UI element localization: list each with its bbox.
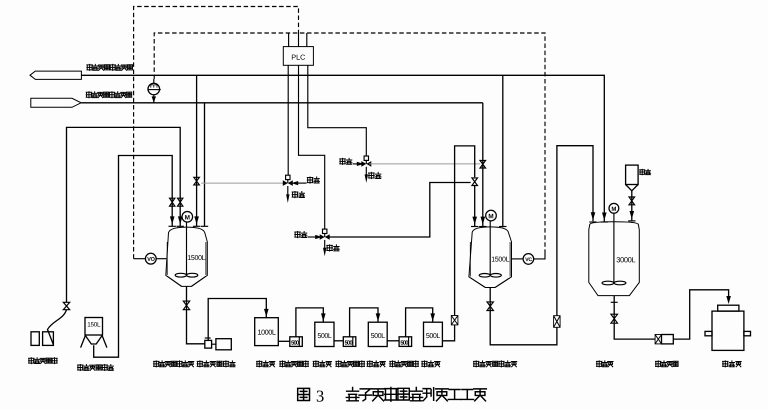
sand mill 3 <box>399 337 412 347</box>
label 放空 cross2 <box>369 172 381 178</box>
wire PLC top stubs <box>288 33 290 47</box>
inlet valves tank1 <box>170 198 175 206</box>
label 放空 cross3 <box>327 245 339 251</box>
grinding kettle 500L #3 <box>368 322 387 346</box>
solenoid cross valve 2 (tank2 DI) <box>364 156 368 160</box>
label 气源 cross3 <box>295 232 307 238</box>
instrument VO weigher tank1 <box>134 258 146 260</box>
label 分散乳化搅拌釜 tank2 <box>473 361 516 367</box>
wire hopper feed loop <box>94 156 173 358</box>
label 研磨釜 3 <box>367 361 385 367</box>
wire mill2 to kettle3 <box>350 308 378 337</box>
grinding kettle 500L #2 <box>315 322 334 346</box>
wire cross3 to tank2 feed valve <box>329 183 470 238</box>
motor M tank3 <box>609 203 619 213</box>
label 卧式砂磨机 1 <box>280 361 309 367</box>
grinding kettle 500L #4 <box>424 322 443 346</box>
label 卧式砂磨机 3 <box>390 361 419 367</box>
label 过滤小车 <box>655 361 678 367</box>
label 灌装机 <box>723 361 742 367</box>
sand mill 2 <box>343 337 356 347</box>
label 气源 cross2 <box>340 158 352 164</box>
solenoid cross valve 3 (tank2 feed) <box>323 229 327 233</box>
pipeline emulsifier <box>205 340 212 348</box>
label 原药包装袋 <box>29 358 58 364</box>
wire PLC to solenoid cross2 <box>308 65 367 156</box>
label 研磨釜 (1000L) <box>257 361 275 367</box>
label 助剂 <box>640 169 651 174</box>
filling machine <box>718 305 739 311</box>
vessel 1500L dispersing kettle <box>166 227 208 286</box>
PLC controller box U-PLC <box>283 47 313 66</box>
wire kettle4 up to tank2 (pump riser) <box>442 325 454 341</box>
wire dashed signal loop 1 (VO to PLC) <box>134 7 299 259</box>
raw material bag squares <box>31 332 39 346</box>
wire bag feed loop <box>67 127 181 302</box>
label 静置釜 <box>596 361 613 367</box>
wire tank3 outlet <box>614 296 655 340</box>
agitator shaft + impeller tank1 <box>186 222 188 275</box>
wire VCT corner solid <box>534 250 545 259</box>
label 去离子水来自储罐 <box>86 92 131 98</box>
label 液料加入料罐 <box>78 365 114 371</box>
wire 1000L to mill1 <box>278 340 290 342</box>
vessel 1500L dispersing kettle 2 <box>469 227 512 288</box>
wire vacuum header <box>81 75 604 222</box>
sand mill 1 <box>290 337 303 347</box>
motor M tank2 <box>486 210 497 221</box>
wire mill1 to kettle2 <box>296 308 323 337</box>
label 研磨釜 2 <box>313 361 331 367</box>
additive hopper 助剂 <box>626 165 639 184</box>
wire dashed signal line 2 (PT / VCT to PLC) <box>154 33 545 251</box>
150L feed hopper <box>85 318 103 336</box>
DI branch into tank1 <box>204 103 206 227</box>
motor M tank1 <box>182 212 193 223</box>
wire filter to filling machine <box>673 290 728 339</box>
vacuum inlet tank3 <box>602 213 607 221</box>
label 真空接自真空泵房 <box>87 64 133 70</box>
feed valve tank2 (from mills) <box>472 178 478 186</box>
label 气源 cross1 <box>307 177 319 183</box>
solenoid cross valve 1 (tank1 vacuum) <box>201 182 283 184</box>
label 研磨釜 4 <box>422 361 440 367</box>
wire DI water header <box>81 102 483 104</box>
wire tank2 outlet to pump riser <box>490 288 557 345</box>
pump X-box 2 <box>554 316 561 328</box>
pump X-box 1 <box>451 316 458 325</box>
filter cart <box>655 335 661 344</box>
wire PLC to solenoid cross1 <box>287 65 289 175</box>
vacuum inlet tank2 <box>502 75 504 227</box>
instrument VCT tank2 <box>512 258 524 260</box>
wire emulsifier to 1000L kettle <box>208 299 266 341</box>
hose to bag <box>48 310 67 345</box>
label 分散乳化搅拌釜 tank1 <box>154 361 194 367</box>
wire kettle3 to mill3 <box>387 340 399 342</box>
valve on bag riser <box>63 302 69 309</box>
DI water inlet tank2 <box>482 103 484 227</box>
wire kettle2 to mill2 <box>334 340 343 342</box>
label 放空 cross1 <box>292 192 304 198</box>
grinding kettle 1000L <box>255 318 279 346</box>
wire PLC to solenoid cross3 <box>299 65 325 229</box>
caption 图3 种子处理悬浮剂加工工艺 <box>298 388 310 400</box>
wire additive to tank3 <box>631 191 633 221</box>
agitator shaft + impeller tank2 <box>489 221 491 275</box>
wire mill3 to kettle4 <box>406 308 433 337</box>
wire tank1 outlet <box>187 286 205 343</box>
flag: vacuum from pump room <box>30 71 81 79</box>
label 卧式砂磨机 2 <box>336 361 365 367</box>
instrument PT on DI line <box>148 83 160 95</box>
flag: DI water from tank <box>31 98 81 107</box>
vessel 3000L standing kettle <box>589 222 640 296</box>
vacuum branch into tank1 <box>196 75 198 226</box>
agitator shaft + impeller tank3 <box>613 213 615 283</box>
label 管线式乳化机 <box>197 361 235 367</box>
